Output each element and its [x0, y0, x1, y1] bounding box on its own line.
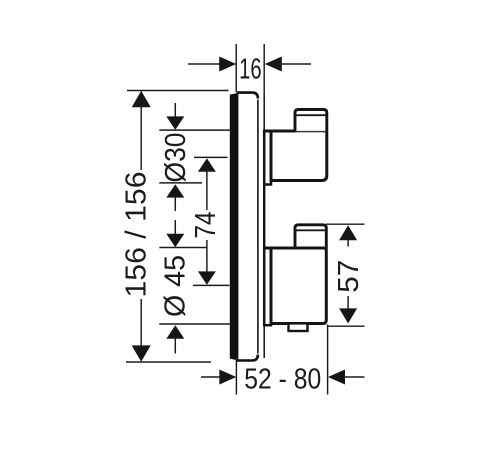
- carrier sleeve front edge: [263, 95, 265, 358]
- top handle body: [263, 131, 327, 181]
- lower handle cap: [295, 225, 326, 249]
- dimension D30: top arrow: [166, 103, 184, 130]
- dimension D45: bottom reference line: [159, 323, 230, 325]
- dimension 57: label: [333, 260, 365, 293]
- dimension 74: bottom arrow: [198, 240, 216, 285]
- dimension 16: right extension line: [263, 44, 265, 95]
- lower handle body: [263, 248, 326, 324]
- dimension 156/156: top reference line: [127, 90, 229, 92]
- dimension 57: top arrow: [339, 225, 357, 246]
- dimension 74: top arrow: [198, 158, 216, 210]
- dimension D30: bottom reference line: [159, 182, 202, 184]
- dimension 57: bottom arrow: [339, 296, 357, 323]
- dimension 16: left arrow: [188, 57, 236, 72]
- dimension 156/156: vertical line with arrows: [132, 91, 151, 362]
- escutcheon plate outline: [237, 93, 258, 361]
- dimension D30: bottom arrow: [166, 184, 184, 211]
- dimension 156/156: bottom reference line: [126, 361, 211, 363]
- dimension 52-80: right arrow: [328, 370, 365, 385]
- dimension 16: right arrow: [265, 57, 311, 72]
- dimension D30: label: [160, 133, 192, 183]
- dimension D45: bottom arrow: [166, 325, 184, 353]
- dimension 16: left extension line: [235, 44, 237, 92]
- dimension D45: top reference line: [159, 247, 207, 249]
- dimension 57: bottom reference line: [328, 325, 365, 327]
- dimension 74: top reference line: [194, 156, 228, 158]
- dimension D45: top arrow: [166, 220, 184, 247]
- svg-text:Ø30: Ø30: [160, 133, 192, 183]
- svg-text:156 / 156: 156 / 156: [121, 172, 153, 298]
- lower handle bottom tab: [289, 323, 308, 331]
- dimension 52-80: left extension line: [235, 357, 237, 395]
- svg-text:52 - 80: 52 - 80: [244, 363, 321, 395]
- svg-text:74: 74: [190, 211, 222, 238]
- dimension D30: top reference line: [159, 129, 230, 131]
- dimension 57: top reference line: [326, 223, 365, 225]
- dimension 156/156: label: [121, 172, 153, 298]
- dimension 74: bottom reference line: [193, 284, 230, 286]
- dimension 74: label: [190, 211, 222, 238]
- dimension 16: label: [239, 53, 262, 85]
- svg-text:57: 57: [333, 260, 365, 293]
- top handle sleeve step: [264, 131, 271, 184]
- dimension 52-80: right extension line: [327, 325, 329, 395]
- top handle cap: [295, 110, 327, 133]
- dimension 52-80: label: [244, 363, 321, 395]
- dimension D45: label: [160, 255, 192, 317]
- escutcheon plate face bar: [230, 94, 238, 360]
- dimension 52-80: left arrow: [201, 370, 236, 385]
- svg-text:Ø 45: Ø 45: [160, 255, 192, 317]
- svg-text:16: 16: [239, 53, 262, 85]
- lower handle sleeve step: [264, 248, 271, 325]
